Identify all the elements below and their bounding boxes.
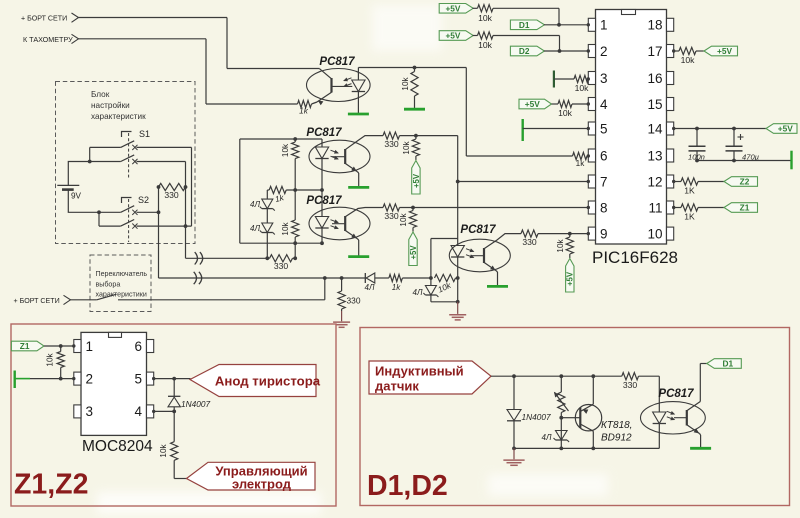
svg-text:10k: 10k	[558, 108, 573, 118]
svg-text:D1: D1	[722, 359, 733, 369]
junction mid rail	[293, 188, 297, 192]
U1 base light line	[332, 85, 353, 87]
wire S2 pole2 right	[137, 225, 192, 227]
U1 LED arrows	[344, 78, 352, 81]
U2 collector	[345, 136, 383, 150]
svg-text:PC817: PC817	[460, 224, 496, 236]
switch selector blade	[97, 294, 117, 300]
svg-text:330: 330	[347, 296, 361, 306]
ground red U4	[457, 302, 459, 314]
svg-text:10k: 10k	[478, 40, 493, 50]
resistor 10k pin4	[558, 100, 572, 107]
wire BORT SETI vertical	[226, 18, 228, 69]
U4 base light line	[471, 255, 485, 257]
dashed box tuning block	[56, 82, 196, 244]
wire bort2 b	[118, 299, 325, 301]
resistor 10k U4	[435, 274, 456, 281]
svg-text:10k: 10k	[46, 352, 55, 366]
svg-text:10k: 10k	[478, 13, 493, 23]
resistor 1K pin11	[681, 204, 698, 211]
U3 collector	[345, 208, 383, 217]
svg-text:8: 8	[600, 200, 608, 215]
junction d q	[591, 374, 595, 378]
junction battery top	[88, 160, 92, 164]
IC U6 pin stubs	[74, 340, 81, 353]
U4 left rail	[430, 239, 432, 279]
junction cap1 bottom	[695, 159, 699, 163]
scan white patch bottom left	[97, 492, 321, 514]
diode 4L wire2	[364, 273, 366, 283]
U4 top wire	[431, 238, 458, 240]
switch S2 actuator	[122, 198, 132, 204]
U7 emitter	[687, 425, 700, 434]
wire r pin12 tag	[698, 181, 724, 183]
bar pin3	[553, 71, 555, 88]
wire moc pin4	[154, 410, 175, 412]
svg-text:1: 1	[600, 18, 608, 33]
wire pin8	[400, 207, 589, 209]
wire pin5	[523, 128, 589, 130]
svg-text:PC817: PC817	[658, 388, 694, 400]
svg-text:14: 14	[647, 121, 663, 136]
wire row1 down	[558, 8, 560, 25]
wire bort2 a	[71, 299, 97, 301]
resistor 10k netA	[294, 139, 296, 142]
zener to bottom	[430, 295, 432, 302]
svg-text:10k: 10k	[402, 140, 411, 154]
svg-text:330: 330	[384, 139, 399, 149]
ground U2	[348, 186, 369, 189]
junction pin1	[557, 23, 561, 27]
junction mid led	[320, 188, 324, 192]
svg-text:PC817: PC817	[306, 127, 342, 139]
U4 LED arrows	[466, 249, 474, 252]
C2 plus sign	[738, 136, 744, 138]
wire pin3	[554, 78, 574, 80]
svg-text:12: 12	[647, 174, 662, 189]
U7 LED	[653, 412, 666, 424]
wire row1	[493, 7, 559, 9]
junction pullup9	[568, 232, 572, 236]
U1 collector line	[320, 69, 332, 79]
junction 330 right	[184, 185, 188, 189]
wire D1 to pin1	[544, 24, 589, 26]
svg-text:D1,D2: D1,D2	[367, 470, 448, 502]
wire diode pin4	[173, 407, 175, 412]
svg-text:10k: 10k	[575, 83, 590, 93]
svg-text:15: 15	[647, 97, 662, 112]
svg-text:датчик: датчик	[375, 378, 419, 393]
tag +5V vert pin7	[412, 161, 420, 195]
svg-text:6: 6	[134, 339, 142, 354]
wire pin17	[674, 50, 679, 52]
U2 LED	[315, 147, 328, 159]
U1 emitter line	[317, 92, 332, 102]
U4 collector	[484, 234, 521, 249]
wire BORT SETI horizontal	[79, 17, 228, 19]
U4 emitter down	[496, 271, 498, 272]
junction U4 left	[429, 276, 433, 280]
junction d bottom 1	[512, 447, 516, 451]
U7 collector	[687, 402, 701, 411]
svg-text:настройки: настройки	[91, 101, 130, 110]
U1 LED anode wire up	[357, 68, 359, 81]
red box Z1Z2	[11, 324, 336, 506]
diode 4L chain 2	[262, 223, 273, 233]
tag +5V pin14	[766, 124, 797, 134]
resistor 1k mid	[269, 186, 286, 193]
svg-text:электрод: электрод	[232, 476, 292, 491]
svg-text:1K: 1K	[684, 186, 695, 196]
network left rail	[239, 139, 241, 243]
wire to R1k pin6	[466, 155, 572, 157]
U3 base light line	[332, 223, 345, 225]
svg-text:10k: 10k	[401, 76, 410, 90]
svg-text:Индуктивный: Индуктивный	[375, 364, 464, 379]
svg-text:10k: 10k	[681, 55, 696, 65]
tag D2 pin2	[510, 46, 544, 56]
svg-text:Z1: Z1	[740, 203, 750, 213]
wire BORT SETI to opto U1 collector	[227, 68, 320, 70]
junction rail A row C	[157, 210, 161, 214]
svg-text:BD912: BD912	[601, 433, 632, 444]
rail B vertical	[185, 162, 187, 259]
junction dot R10k-gnd	[413, 66, 417, 70]
svg-text:PC817: PC817	[319, 56, 355, 68]
wire row2	[493, 35, 560, 37]
wire2 horizontal a	[159, 277, 366, 279]
flag inductive	[369, 361, 491, 394]
Q1 base bar	[579, 408, 581, 429]
wire elbow down pin6	[465, 68, 467, 157]
resistor 330 U4c	[521, 230, 538, 237]
svg-text:330: 330	[384, 211, 399, 221]
junction d bottom 2	[559, 447, 563, 451]
S2 contact x 2	[132, 224, 137, 229]
junction bottom led	[320, 241, 324, 245]
junction 330 rail	[293, 256, 297, 260]
wire base	[561, 417, 576, 419]
svg-text:5: 5	[134, 371, 142, 386]
opto U4 ellipse	[449, 239, 510, 272]
junction cap2 bottom	[732, 159, 736, 163]
svg-text:К ТАХОМЕТРУ: К ТАХОМЕТРУ	[23, 35, 73, 44]
U7 emitter down	[700, 434, 701, 435]
Q1 emitter up	[592, 376, 594, 404]
resistor 1K pin12	[681, 178, 698, 185]
diode 1N4007 Z	[168, 395, 180, 397]
svg-text:6: 6	[600, 148, 608, 163]
svg-text:10k: 10k	[159, 443, 168, 457]
svg-text:MOC8204: MOC8204	[82, 438, 153, 455]
tag +5V pin4	[519, 99, 552, 109]
battery 9V plates	[57, 184, 79, 186]
wire dbox main	[491, 375, 622, 377]
bar right end	[790, 151, 792, 170]
resistor 10k gate	[171, 442, 178, 461]
tag +5V row2	[439, 31, 473, 41]
resistor 330 D	[622, 373, 639, 380]
wire U1 LED to elbow	[358, 67, 466, 69]
wire moc pin2	[30, 378, 74, 380]
opto U7 ellipse	[641, 402, 706, 434]
resistor 10k pullup7	[415, 136, 417, 139]
wire moc pin5	[154, 378, 191, 380]
U4 LED	[451, 246, 464, 258]
pot arrow	[555, 393, 569, 412]
svg-text:11: 11	[648, 200, 662, 215]
wire bort2 up	[324, 278, 326, 300]
svg-text:16: 16	[647, 71, 662, 86]
junction d bottom 3	[591, 447, 595, 451]
IC U6 MOC8204 body	[81, 332, 147, 435]
wire row2 down	[559, 36, 561, 52]
U1 emitter wire to resistor	[312, 102, 318, 104]
network top wire	[240, 138, 322, 140]
ground U7	[690, 447, 711, 450]
svg-text:+ БОРТ СЕТИ: + БОРТ СЕТИ	[14, 297, 60, 305]
wire 1n4007 z	[173, 379, 175, 396]
wire2 diode to r	[375, 277, 389, 279]
svg-text:330: 330	[623, 380, 638, 390]
wire down to S2 pole2	[98, 212, 100, 226]
wire pin7	[458, 181, 589, 183]
wire S1 pole1 left	[90, 146, 121, 148]
IC pin connection dots	[587, 23, 590, 26]
junction pullup8	[411, 206, 415, 210]
svg-text:Анод тиристора: Анод тиристора	[215, 374, 321, 389]
capacitor C2 470u	[733, 129, 735, 147]
U3 LED	[315, 217, 328, 229]
svg-text:330: 330	[274, 261, 289, 271]
wire R1k to pin6	[587, 155, 589, 157]
wire r pin11 tag	[698, 207, 724, 209]
junction U4 bottom	[456, 300, 460, 304]
tag Z1 pin11	[724, 203, 758, 213]
S2 link dashed	[128, 199, 130, 242]
wire S2 pole2 left	[99, 225, 121, 227]
S1 blade2	[121, 155, 135, 162]
svg-text:Блок: Блок	[91, 90, 110, 99]
moc pin dots	[72, 344, 75, 347]
Q1 base wire stub	[576, 417, 580, 419]
wire to flag2	[174, 478, 187, 480]
pot resistor	[560, 376, 562, 392]
mid wire b	[286, 189, 322, 191]
wire pin14	[674, 128, 766, 130]
junction pin2	[558, 49, 562, 53]
junction top rail	[293, 137, 297, 141]
junction moc pin4	[172, 410, 176, 414]
junction 330 vert	[340, 276, 344, 280]
svg-text:10k: 10k	[281, 221, 290, 235]
svg-text:4Л: 4Л	[413, 288, 423, 297]
svg-text:5: 5	[600, 121, 608, 136]
battery top wire	[68, 162, 89, 186]
svg-text:1k: 1k	[299, 107, 309, 116]
wire r pin17 tag	[696, 50, 704, 52]
resistor 10k row1	[473, 7, 478, 9]
tag +5V pin17	[704, 46, 738, 56]
junction moc pin5	[172, 377, 176, 381]
resistor 10k pullup8	[412, 208, 414, 211]
svg-text:9: 9	[600, 226, 608, 241]
rail up to network	[294, 243, 296, 258]
svg-text:2: 2	[600, 44, 608, 59]
connector chevron BORT SETI	[72, 13, 79, 22]
S1 link dashed	[128, 133, 130, 178]
svg-text:18: 18	[647, 18, 662, 33]
svg-text:+5V: +5V	[717, 46, 732, 56]
wire r U4	[456, 277, 458, 279]
junction Z1 10k	[59, 344, 63, 348]
svg-text:S2: S2	[138, 195, 149, 205]
tag Z1 input	[11, 341, 44, 351]
capacitor C1 100n	[696, 129, 698, 147]
junction cap1	[695, 127, 699, 131]
junction base	[559, 416, 563, 420]
U4 base bar	[483, 248, 485, 263]
svg-text:4: 4	[600, 97, 608, 112]
U3 emitter	[345, 230, 357, 238]
tag Z2 pin12	[724, 177, 758, 187]
wire S2 pole1 right	[137, 211, 159, 213]
resistor R-tacho 1k	[298, 100, 312, 107]
svg-text:17: 17	[647, 44, 662, 59]
junction d diode	[512, 374, 516, 378]
ground under 10k U1	[404, 108, 425, 111]
ground red under 330	[341, 311, 343, 321]
switch S1 actuator	[122, 132, 132, 138]
resistor 10k Z1	[60, 346, 62, 352]
junction diode chain	[265, 256, 269, 260]
svg-text:10k: 10k	[399, 212, 408, 226]
diode 4L chain 1	[262, 199, 273, 209]
tag +5V vert pin8	[409, 232, 417, 266]
junction moc pin2	[59, 377, 63, 381]
zener 4L U4	[425, 286, 436, 296]
S2 contact x 1	[132, 210, 137, 215]
ground U3	[348, 255, 369, 258]
svg-text:1: 1	[86, 339, 94, 354]
U4 emitter	[484, 262, 496, 270]
svg-text:+5V: +5V	[525, 99, 540, 109]
wire pin9	[538, 233, 589, 235]
svg-text:Z1,Z2: Z1,Z2	[14, 469, 88, 501]
U1 LED	[352, 80, 365, 92]
svg-text:4Л: 4Л	[542, 433, 552, 442]
junction bottom rail	[293, 241, 297, 245]
svg-text:+5V: +5V	[778, 124, 793, 134]
Q1 emitter	[580, 404, 593, 411]
rail A vertical	[158, 187, 160, 278]
diode 1N4007 D	[513, 376, 515, 409]
S1 contact x 2	[132, 159, 137, 164]
junction cap2	[732, 127, 736, 131]
diode chain wire	[266, 190, 268, 199]
wire tag pin4	[552, 103, 559, 105]
U2 LED arrows	[331, 150, 339, 153]
svg-text:3: 3	[600, 71, 608, 86]
svg-text:3: 3	[86, 404, 94, 419]
svg-text:10: 10	[647, 226, 662, 241]
U4 rail right	[457, 278, 459, 302]
U7 LED arrows	[667, 411, 675, 414]
S2 blade1	[121, 206, 135, 213]
wire 330 corner	[639, 375, 660, 377]
resistor 330 switch	[159, 183, 186, 190]
svg-text:4Л: 4Л	[250, 224, 260, 233]
d bottom wire	[514, 447, 659, 449]
U2 base light line	[332, 156, 345, 158]
bar pin5	[522, 119, 524, 141]
resistor 330 U2	[383, 132, 400, 139]
svg-text:характеристик: характеристик	[91, 112, 146, 121]
wire D2 to pin2	[544, 50, 589, 52]
right rail short	[191, 147, 193, 226]
svg-text:+5V: +5V	[445, 4, 460, 14]
resistor 330 wire1	[270, 255, 293, 262]
junction pin7 tee	[456, 180, 460, 184]
dashed box selector	[90, 255, 151, 312]
svg-text:характеристики: характеристики	[96, 291, 147, 299]
svg-text:КТ818,: КТ818,	[601, 420, 632, 431]
wire pin11	[674, 207, 681, 209]
U4 LED column	[457, 239, 459, 246]
wire pin4 down	[173, 411, 175, 441]
tag D1 out	[707, 359, 742, 369]
junction d pot	[559, 374, 563, 378]
svg-text:1k: 1k	[392, 283, 401, 292]
wire1 to rail	[293, 257, 296, 259]
junction U4 right	[456, 276, 460, 280]
U3 emitter down	[357, 239, 359, 240]
svg-text:4Л: 4Л	[365, 283, 375, 292]
junction battery bottom	[97, 210, 101, 214]
svg-text:1k: 1k	[576, 159, 586, 168]
zener 4L U4 wire	[430, 278, 432, 286]
scan white patch top	[372, 5, 442, 51]
wire up to S1 pole1	[89, 147, 91, 161]
U2 base bar	[344, 149, 346, 164]
network bottom wire	[240, 242, 322, 244]
resistor 1k pin6	[573, 152, 588, 159]
junction rail B row D	[184, 224, 188, 228]
LED column	[321, 139, 323, 147]
svg-text:+5V: +5V	[445, 31, 460, 41]
S1 blade1	[121, 141, 135, 148]
wire TAHOMETR to R 1k	[206, 103, 298, 105]
wire1 horizontal	[186, 257, 270, 259]
svg-text:2: 2	[86, 371, 94, 386]
wire to D1 tag	[700, 363, 707, 365]
svg-text:4Л: 4Л	[250, 200, 260, 209]
wire U2 to elbow	[400, 135, 458, 137]
flag gate	[187, 462, 316, 490]
svg-text:13: 13	[647, 148, 662, 163]
ground red D	[513, 448, 515, 459]
svg-text:+5V: +5V	[409, 245, 418, 260]
IC U5 pin stubs	[588, 18, 595, 31]
svg-text:S1: S1	[139, 129, 150, 139]
resistor 10k pullup9	[569, 234, 571, 237]
U2 emitter	[345, 163, 357, 171]
svg-text:10k: 10k	[281, 143, 290, 157]
wire Z1 tag	[44, 345, 74, 347]
wire r pin4	[572, 103, 589, 105]
svg-text:7: 7	[600, 174, 608, 189]
svg-text:330: 330	[164, 190, 179, 200]
